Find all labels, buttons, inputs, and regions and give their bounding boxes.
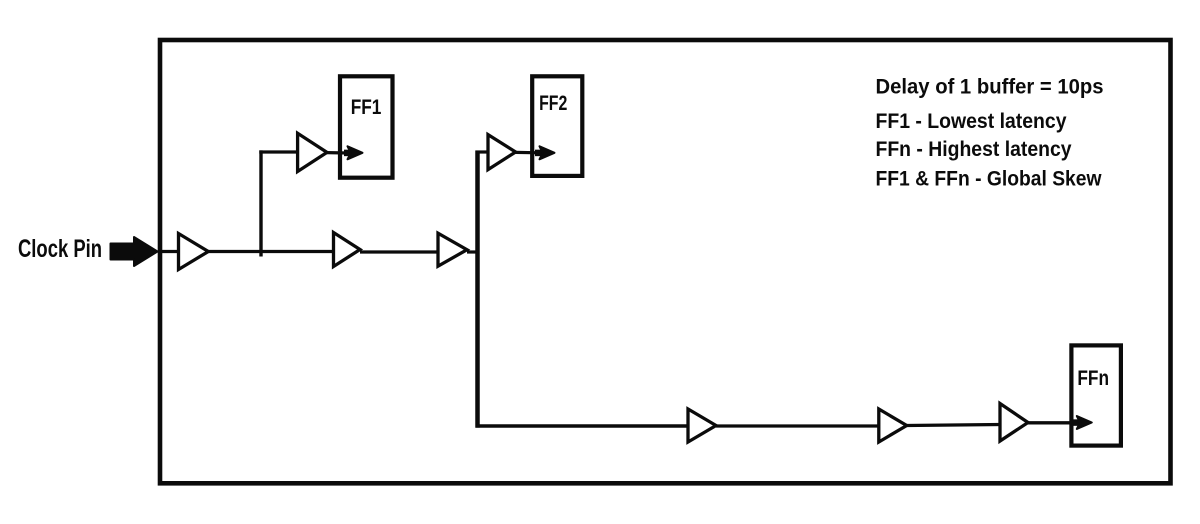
svg-text:FF1 - Lowest latency: FF1 - Lowest latency — [876, 110, 1067, 133]
wire: U5 to FF2 — [516, 151, 540, 155]
buffer U3 (FF1 branch) — [298, 133, 327, 171]
wire: FF1 branch horizontal — [259, 150, 298, 153]
wire: U2 to buffer U4 — [360, 250, 439, 253]
wire: U8 to FFn — [1028, 421, 1075, 424]
buffer U7 (bottom row) — [879, 409, 907, 442]
svg-text:FFn: FFn — [1077, 367, 1109, 390]
flip-flop FF1 box — [340, 76, 393, 177]
buffer U1 — [179, 234, 209, 270]
arrowhead into FF1 — [344, 150, 352, 157]
clock input block arrow — [111, 237, 158, 266]
svg-text:Clock Pin: Clock Pin — [18, 235, 102, 263]
buffer U8 (bottom row) — [1000, 404, 1028, 442]
wire: junction riser to FF1 branch — [259, 150, 262, 256]
buffer U5 (FF2 branch) — [488, 135, 516, 170]
flip-flop FF2 box — [532, 76, 582, 176]
wire: bottom row from trunk to buffer U6 — [476, 424, 690, 427]
buffer U6 (bottom row) — [688, 409, 716, 442]
wire: left border to buffer U1 — [162, 250, 179, 253]
buffer U2 (main trunk) — [334, 233, 361, 267]
wire: FF2 branch horizontal — [476, 150, 490, 153]
outer boundary box — [160, 40, 1171, 483]
arrowhead into FFn — [1071, 419, 1081, 426]
svg-text:FF2: FF2 — [539, 92, 567, 115]
svg-text:FF1: FF1 — [351, 96, 382, 119]
svg-text:FFn - Highest latency: FFn - Highest latency — [876, 138, 1072, 161]
arrowhead into FF2 — [535, 150, 544, 157]
svg-text:Delay of 1 buffer = 10ps: Delay of 1 buffer = 10ps — [876, 76, 1104, 99]
wire: U7 to buffer U8 — [907, 425, 1001, 426]
wire: long vertical trunk (FF2 branch down to bottom row) — [475, 151, 480, 428]
buffer U4 (main trunk) — [438, 233, 467, 266]
svg-text:FF1 & FFn - Global Skew: FF1 & FFn - Global Skew — [876, 167, 1103, 190]
flip-flop FFn box — [1071, 345, 1121, 445]
wire: U3 to FF1 — [327, 151, 348, 155]
wire: U6 to buffer U7 — [716, 424, 880, 427]
wire: U1 to buffer U2 (main trunk) — [208, 250, 334, 253]
wire: U4 to vertical trunk — [467, 250, 479, 253]
